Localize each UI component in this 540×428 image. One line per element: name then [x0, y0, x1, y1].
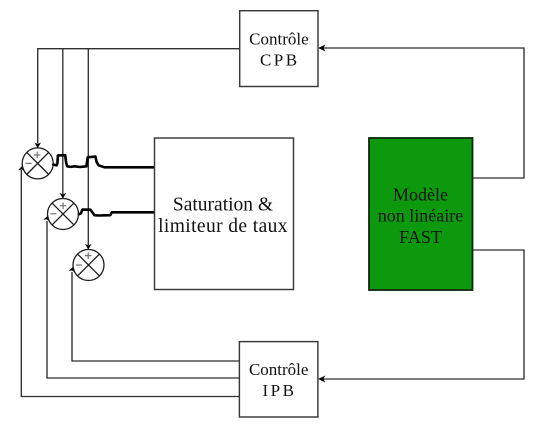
svg-text:FAST: FAST	[399, 227, 442, 247]
svg-text:IPB: IPB	[263, 381, 297, 400]
svg-text:Contrôle: Contrôle	[249, 29, 309, 48]
svg-text:Modèle: Modèle	[393, 185, 448, 205]
svg-text:CPB: CPB	[260, 51, 300, 70]
svg-text:Contrôle: Contrôle	[249, 360, 309, 379]
svg-text:Saturation &: Saturation &	[173, 195, 273, 216]
svg-text:non linéaire: non linéaire	[378, 206, 463, 226]
svg-text:limiteur de taux: limiteur de taux	[158, 216, 288, 237]
